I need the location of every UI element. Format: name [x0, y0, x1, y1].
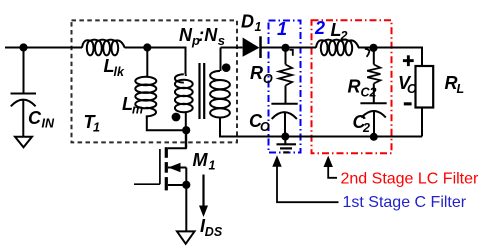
- svg-text:N: N: [179, 25, 193, 45]
- svg-text:2: 2: [314, 18, 325, 38]
- svg-text:1: 1: [277, 19, 287, 39]
- svg-text:O: O: [263, 72, 273, 86]
- svg-text:D: D: [241, 12, 254, 32]
- svg-text:L: L: [457, 82, 465, 96]
- svg-text:R: R: [348, 77, 361, 97]
- svg-text:2: 2: [340, 29, 348, 43]
- svg-text:C2: C2: [361, 86, 377, 100]
- svg-text:s: s: [218, 33, 225, 48]
- svg-text:IN: IN: [42, 117, 55, 131]
- svg-text:N: N: [204, 25, 218, 45]
- svg-text:C: C: [28, 108, 42, 128]
- svg-text:lk: lk: [114, 65, 125, 79]
- svg-text:1st Stage C Filter: 1st Stage C Filter: [343, 194, 467, 211]
- svg-text:M: M: [193, 150, 209, 170]
- svg-text:2: 2: [362, 121, 370, 135]
- svg-text:O: O: [260, 120, 270, 134]
- svg-text:2nd Stage LC Filter: 2nd Stage LC Filter: [341, 171, 480, 188]
- svg-text:1: 1: [209, 159, 216, 173]
- svg-text:1: 1: [255, 20, 262, 34]
- svg-text:O: O: [407, 82, 417, 96]
- svg-text:1: 1: [93, 121, 100, 135]
- svg-text:DS: DS: [205, 225, 223, 239]
- svg-text:m: m: [132, 103, 143, 117]
- svg-text:R: R: [250, 63, 263, 83]
